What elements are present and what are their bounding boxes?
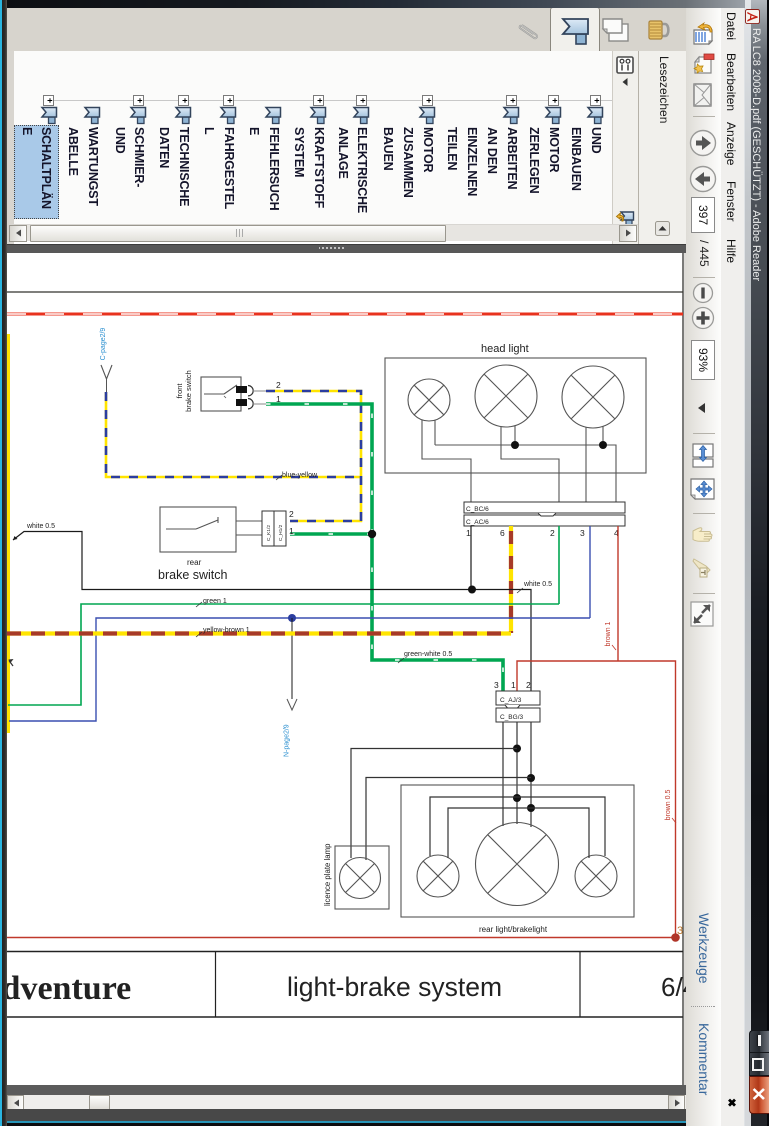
highlight tool (disabled) <box>691 556 714 580</box>
wire green-white branch: rear brake switch pin 1 <box>290 532 372 536</box>
zoom out <box>692 282 714 304</box>
junction red wires (dot) <box>671 933 680 942</box>
wire E1 to common bus <box>434 420 436 445</box>
svg-text:Adventure: Adventure <box>7 970 131 1007</box>
lamp E1 (parking light) <box>408 379 450 421</box>
connector C_BG/3 <box>496 708 540 722</box>
svg-text:rear: rear <box>187 558 202 567</box>
toolbar icon: envelope <box>693 83 712 107</box>
wire white 0.5: off-page left to C_AJ/3 pin 2 <box>13 532 531 692</box>
lamp E3 (high beam) <box>562 366 624 428</box>
bookmark: SCHALTPLAENE (selected) <box>43 95 54 106</box>
wire green 1: pin 2 across to page edge <box>8 604 559 705</box>
junction white wire / pin 1 drop <box>468 586 476 594</box>
toolbar icon: save/export <box>691 22 715 46</box>
bookmarks panel <box>638 51 686 244</box>
off-page arrow on yellow wire <box>9 659 14 666</box>
wire brown: C_AC/6 pin 4 down <box>617 526 619 661</box>
svg-text:2: 2 <box>526 680 531 690</box>
svg-text:1: 1 <box>466 528 471 538</box>
svg-text:2: 2 <box>550 528 555 538</box>
connector C_AC/6 <box>464 515 625 526</box>
left tab strip <box>0 0 686 53</box>
wire to node N-page2/9 <box>291 618 293 699</box>
page number box <box>691 197 715 233</box>
fit width icon <box>691 443 714 468</box>
label white 0.5 (right) <box>517 581 552 593</box>
wire blue: C_AC/6 pin 3 down <box>589 526 591 618</box>
svg-text:C_H1/2: C_H1/2 <box>278 524 284 541</box>
svg-text:3: 3 <box>494 680 499 690</box>
svg-text:1: 1 <box>289 526 294 536</box>
wire ground bus of tail lamps <box>448 808 589 858</box>
wire brown: to C_AJ/3 pin 1 and brown 0.5 branch <box>517 661 676 938</box>
window buttons <box>749 1030 769 1054</box>
wire stubs E2/E3 to common bus <box>515 426 603 445</box>
junction E2 on common bus <box>511 441 519 449</box>
fit page icon <box>690 478 715 504</box>
terminal blocks of front brake switch <box>236 386 266 409</box>
svg-text:green-white 0.5: green-white 0.5 <box>404 651 452 658</box>
bookmark: MOTOR ZUSAMMENBAUEN <box>422 95 433 106</box>
wire blue-yellow segment: front brake switch pin 2 riser to rear connector pin 2 <box>266 391 361 521</box>
svg-text:C_AC/6: C_AC/6 <box>466 519 489 526</box>
svg-text:C_BC/6: C_BC/6 <box>466 506 489 513</box>
connector keying notch <box>505 705 520 708</box>
svg-text:N-page2/9: N-page2/9 <box>284 724 291 757</box>
toolbar icon: next page (down) <box>689 165 717 193</box>
label yellow-brown 1 <box>196 627 250 637</box>
svg-text:C-page2/9: C-page2/9 <box>100 328 107 361</box>
svg-text:front: front <box>175 383 184 399</box>
lamp E7 right tail lamp <box>575 855 617 897</box>
options icon <box>616 56 634 74</box>
svg-text:1: 1 <box>511 680 516 690</box>
tab: bookmark flag (selected) <box>560 17 590 47</box>
svg-text:rear light/brakelight: rear light/brakelight <box>479 925 548 934</box>
connector C_K1/2 C_H1/2 (rear brake switch) <box>262 511 286 546</box>
tab: padlock <box>646 17 673 43</box>
junction ground wire / tail lamps bus <box>527 804 535 812</box>
connector keying notch <box>538 513 556 516</box>
wire red (main power, dashed) <box>7 313 683 316</box>
wire green-white: front brake switch pin 1 to C_AJ/3 pin 3 <box>266 404 503 691</box>
wire blue-yellow segment: C-page2/9 down and across to riser <box>106 392 361 477</box>
svg-text:3: 3 <box>580 528 585 538</box>
licence plate lamp housing <box>335 846 389 909</box>
toolbar <box>685 0 721 1126</box>
svg-text:C_BG/3: C_BG/3 <box>500 714 524 721</box>
menu bar <box>720 0 745 1126</box>
svg-text:head light: head light <box>481 343 529 355</box>
junction tail wire / tail lamps bus <box>513 794 521 802</box>
wire brake feed: C_BG/3 pin 3 to brake lamp <box>502 722 504 826</box>
rear light housing <box>401 785 634 917</box>
wire yellow (along page edge) <box>7 334 10 733</box>
Werkzeuge / Kommentar <box>697 913 712 984</box>
zoom in <box>691 306 715 330</box>
junction E3 on common bus <box>599 441 607 449</box>
lamp E2 (low beam) <box>475 365 537 427</box>
svg-text:yellow-brown 1: yellow-brown 1 <box>203 627 250 634</box>
svg-text:light-brake system: light-brake system <box>287 972 502 1002</box>
tab: pages <box>601 16 630 44</box>
svg-text:6: 6 <box>500 528 505 538</box>
splitter <box>0 253 686 1095</box>
svg-text:blue-yellow: blue-yellow <box>282 472 318 479</box>
svg-text:brake switch: brake switch <box>184 370 193 412</box>
wire licence plate lamp ground <box>366 778 531 861</box>
bookmark: ELEKTRISCHE ANLAGE <box>356 95 367 106</box>
junction green-white wires <box>368 530 376 538</box>
wire white: C_AC/6 pin 1 down <box>470 526 472 590</box>
svg-text:brown 1: brown 1 <box>605 621 612 646</box>
svg-text:white 0.5: white 0.5 <box>523 581 552 588</box>
bookmark: TECHNISCHE DATEN <box>178 95 189 106</box>
panel collapse button <box>655 221 670 236</box>
toolbar icon: prev page (up) <box>689 129 717 157</box>
bookmark: UND EINBAUEN <box>590 95 601 106</box>
bookmark: FEHLERSUCHE <box>265 106 282 124</box>
wire E1 to connector pin 1 <box>422 420 471 502</box>
wire yellow-brown: across page to pin 6 riser <box>7 631 511 635</box>
junction blue wire to N-page2/9 <box>288 614 296 622</box>
svg-text:6/445: 6/445 <box>661 972 686 1002</box>
fullscreen icon <box>690 601 714 627</box>
label green-white 0.5 <box>398 651 452 663</box>
bookmark: WARTUNGSTABELLE <box>84 106 101 124</box>
bookmark: MOTOR ZERLEGEN <box>548 95 559 106</box>
junction tail wire / licence lamp <box>513 745 521 753</box>
lamp E6 brake/tail lamp (centre) <box>476 823 559 906</box>
label green 1 <box>196 598 227 607</box>
switch S1 front brake switch <box>175 370 241 412</box>
svg-text:green 1: green 1 <box>203 598 227 605</box>
wire red (ground return, bottom) <box>7 937 676 939</box>
lamp E5 left tail lamp <box>417 855 459 897</box>
wire ground: C_BG/3 pin 2 down <box>530 722 532 827</box>
gold bookmark icon <box>615 209 635 229</box>
switch S2 rear brake switch <box>158 507 262 582</box>
label blue-yellow <box>276 472 318 480</box>
svg-text:brake switch: brake switch <box>158 568 228 582</box>
lamp E4 licence plate lamp <box>340 858 381 899</box>
svg-text:2: 2 <box>289 509 294 519</box>
svg-text:licence plate lamp: licence plate lamp <box>323 843 332 906</box>
toolbar icon: note/comment <box>690 52 715 77</box>
bookmark: ARBEITEN AN DEN EINZELNEN TEILEN <box>506 95 517 106</box>
zoom box <box>691 340 715 380</box>
wire E3 to connector pin 3 <box>585 427 587 502</box>
PDF page background <box>7 253 686 1085</box>
svg-text:C_K1/2: C_K1/2 <box>266 525 272 541</box>
wire licence plate lamp feed <box>351 749 517 859</box>
connector C_AJ/3 <box>496 691 540 705</box>
node C-page2/9 (off-page connector) <box>100 328 112 393</box>
hand tool (disabled) <box>691 524 714 547</box>
svg-text:C_AJ/3: C_AJ/3 <box>500 697 522 704</box>
off-page arrowhead of white wire <box>13 536 18 540</box>
title block frame <box>7 952 683 1018</box>
svg-text:brown 0.5: brown 0.5 <box>665 790 672 821</box>
tab: paperclip <box>516 18 542 43</box>
wire E2 to connector pin 2 <box>501 427 559 502</box>
junction ground wire / licence lamp <box>527 774 535 782</box>
adobe icon <box>745 9 760 24</box>
wire common bus to connector pin 4 <box>435 445 616 502</box>
node N-page2/9 (off-page arrow) <box>284 699 298 757</box>
wire tail feed: C_BG/3 pin 1 down <box>516 722 518 824</box>
wire green: C_AC/6 pin 2 down <box>558 526 560 604</box>
svg-text:2: 2 <box>276 380 281 390</box>
zoom dropdown arrow <box>695 400 709 416</box>
wire blue: pin 3 across to page edge <box>9 618 590 721</box>
head light housing <box>385 358 646 473</box>
drawing frame line (top) and pane edge (right) <box>7 253 683 1085</box>
svg-text:white 0.5: white 0.5 <box>26 523 55 530</box>
bookmark: SCHMIER- UND <box>133 95 144 106</box>
wire tail lamps bus <box>430 797 605 856</box>
window title bar <box>745 0 769 1126</box>
PDF page with wiring diagram <box>7 253 686 1085</box>
bookmarks panel scrollbar <box>9 224 638 241</box>
bookmark: FAHRGESTELL <box>223 95 234 106</box>
connector C_BC/6 <box>464 502 625 513</box>
wire yellow-brown riser: C_AC/6 pin 6 down <box>509 526 513 633</box>
bookmark: KRAFTSTOFFSYSTEM <box>313 95 324 106</box>
doc scrollbar arrows/thumb <box>668 1095 685 1111</box>
